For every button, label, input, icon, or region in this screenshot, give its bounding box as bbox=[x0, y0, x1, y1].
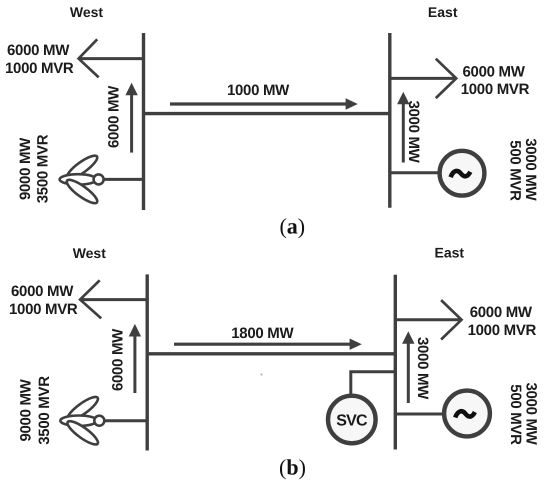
svg-text:(b): (b) bbox=[279, 455, 306, 480]
wire SVC connector (b) bbox=[351, 372, 396, 395]
svg-text:3000 MW: 3000 MW bbox=[405, 100, 422, 163]
svg-text:9000 MW: 9000 MW bbox=[18, 378, 35, 441]
flow arrow 3000 MW up East (a) bbox=[397, 92, 409, 163]
bus West vertical busbar (a) bbox=[142, 33, 145, 210]
svg-text:6000 MW: 6000 MW bbox=[110, 328, 127, 391]
flow arrow tie line 1800 MW (b) bbox=[174, 339, 362, 350]
svg-text:SVC: SVC bbox=[336, 412, 368, 429]
flow arrow 6000 MW up West (b) bbox=[129, 324, 141, 393]
wind turbine blades (b) bbox=[60, 394, 100, 448]
generator G East (b) bbox=[444, 391, 490, 437]
wire wind turbine connection (b) bbox=[101, 419, 148, 422]
wire tie line West-East (b) bbox=[147, 352, 395, 355]
svg-text:6000 MW: 6000 MW bbox=[463, 64, 526, 81]
arrowhead East load open chevron (b) bbox=[441, 300, 461, 339]
svg-text:1000 MVR: 1000 MVR bbox=[468, 322, 537, 339]
svg-text:East: East bbox=[435, 245, 465, 261]
wire wind turbine connection (a) bbox=[100, 178, 144, 181]
svg-text:1000 MVR: 1000 MVR bbox=[5, 60, 74, 77]
svg-text:500 MVR: 500 MVR bbox=[506, 140, 523, 201]
bus West vertical busbar (b) bbox=[145, 274, 148, 450]
svg-text:6000 MW: 6000 MW bbox=[11, 283, 74, 300]
generator G East (a) bbox=[440, 151, 485, 196]
flow arrow tie line 1000 MW (a) bbox=[170, 98, 358, 109]
arrowhead West load open chevron (b) bbox=[80, 280, 101, 318]
svg-text:3500 MVR: 3500 MVR bbox=[36, 376, 53, 445]
svg-text:6000 MW: 6000 MW bbox=[106, 85, 123, 148]
generator tilde symbol (b) bbox=[455, 411, 475, 417]
wire generator connection (b) bbox=[395, 413, 445, 416]
wind turbine blades (a) bbox=[60, 152, 100, 206]
svg-text:1000 MVR: 1000 MVR bbox=[461, 81, 530, 98]
svg-text:1800 MW: 1800 MW bbox=[231, 325, 294, 342]
generator tilde symbol (a) bbox=[451, 171, 471, 177]
wind turbine hub (a) bbox=[94, 174, 104, 184]
wire generator connection (a) bbox=[390, 171, 440, 174]
svg-text:3500 MVR: 3500 MVR bbox=[34, 134, 51, 203]
svg-text:6000 MW: 6000 MW bbox=[470, 304, 533, 321]
flow arrow 3000 MW up East (b) bbox=[402, 331, 414, 403]
svg-text:6000 MW: 6000 MW bbox=[7, 42, 70, 59]
arrowhead West load open chevron (a) bbox=[79, 39, 99, 77]
flow arrow 6000 MW up West (a) bbox=[125, 83, 137, 153]
svg-text:West: West bbox=[70, 4, 104, 20]
SVC static var compensator circle (b) bbox=[328, 396, 376, 444]
svg-text:1000 MW: 1000 MW bbox=[227, 82, 290, 99]
bus East vertical busbar (b) bbox=[394, 275, 397, 450]
wire West load arrow shaft (a) bbox=[80, 57, 144, 60]
svg-text:1000 MVR: 1000 MVR bbox=[9, 301, 78, 318]
wire East load arrow shaft (a) bbox=[390, 77, 455, 80]
svg-text:East: East bbox=[428, 4, 458, 20]
svg-text:3000 MW: 3000 MW bbox=[414, 337, 431, 400]
arrowhead East load open chevron (a) bbox=[436, 59, 456, 98]
wire West load arrow shaft (b) bbox=[81, 298, 147, 301]
stray dot artifact (b) bbox=[260, 373, 262, 375]
wire tie line West-East (a) bbox=[144, 112, 390, 115]
svg-text:9000 MW: 9000 MW bbox=[17, 137, 34, 200]
svg-text:500 MVR: 500 MVR bbox=[507, 384, 524, 445]
svg-text:(a): (a) bbox=[279, 214, 305, 239]
wire East load arrow shaft (b) bbox=[395, 318, 460, 321]
wind turbine hub (b) bbox=[94, 416, 104, 426]
bus East vertical busbar (a) bbox=[388, 33, 391, 208]
svg-text:West: West bbox=[73, 245, 107, 261]
